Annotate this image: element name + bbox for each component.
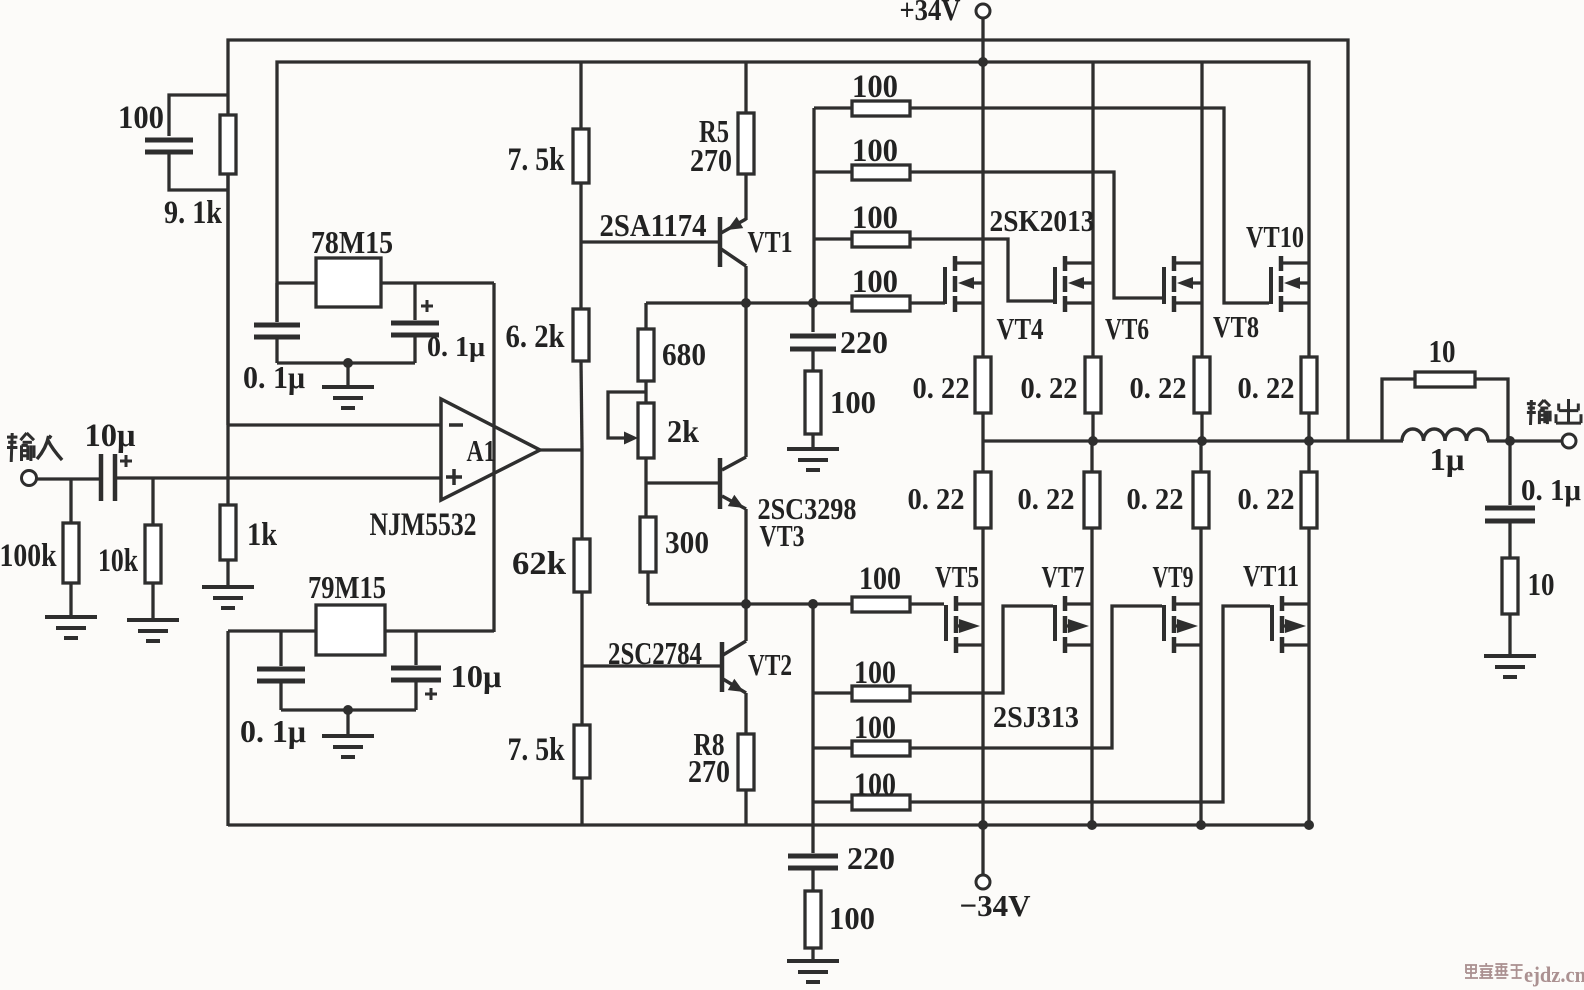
resistor 6.2k [573,309,589,361]
svg-text:0. 22: 0. 22 [1130,370,1187,405]
label 输出 (output) [1527,399,1581,425]
resistor R8 270 [738,734,754,825]
svg-text:0. 1μ: 0. 1μ [240,713,306,749]
label VT1 [748,224,793,259]
node: -34V rail junction x=983 [978,820,988,830]
svg-text:VT5: VT5 [935,559,979,594]
svg-text:ejdz.cn: ejdz.cn [1524,962,1584,987]
wire: rowB to VT7 gate [910,606,1053,693]
label 10u (79M15) [451,658,502,694]
resistor 100 (upper RC) [805,371,821,434]
label 0.22 (lower, col 1092) [1018,481,1075,516]
wire: row3 to VT6 gate [910,239,1053,301]
svg-text:0. 22: 0. 22 [908,481,965,516]
svg-text:7. 5k: 7. 5k [508,142,566,178]
wire: bias column seg3 [581,361,582,449]
resistor 100k (input) [63,478,79,583]
potentiometer 2k [608,392,654,458]
label 2SC2784 [608,635,702,671]
label 100 (row3) [852,200,898,236]
regulator 78M15 [316,258,381,307]
mosfet VT11 (2SJ313) [1272,596,1309,653]
wire: rowA to VT5 gate [910,602,944,605]
node: output rail junction x=1093 [1088,436,1098,446]
label 100 (rowA) [859,561,901,597]
label 680 [662,336,706,372]
wire: 79M15 input from -34V rail [228,631,316,826]
label +34V [900,0,962,27]
resistor 0.22 (lower, col 1309) [1301,441,1317,604]
label 1u [1430,441,1465,477]
node: +34V rail / VT4 drain [978,57,988,67]
resistor 100 (gate VT4) [852,296,910,311]
resistor 100 (gate VT7) [813,686,910,701]
svg-text:VT10: VT10 [1246,219,1304,254]
label 100 (row1) [852,69,898,105]
svg-text:VT4: VT4 [997,311,1044,346]
capacitor 100 (across 9.1k) [145,140,193,152]
mosfet VT4 (2SK2013) [943,256,983,312]
wire: VT1 base wire [581,240,718,243]
transistor VT1 (2SA1174 PNP) [720,174,746,303]
terminal input (circle) [22,471,37,486]
resistor 10k (input) [145,478,161,583]
wire: bias column to -34V rail [580,778,583,825]
label 100 (rowD) [854,767,896,803]
resistor 100 (gate VT6) [814,232,910,247]
label 0.22 (lower, col 1309) [1238,481,1295,516]
svg-text:220: 220 [847,840,895,876]
svg-text:NJM5532: NJM5532 [370,507,477,543]
label -34V [960,888,1032,923]
wire: 79M15 ground rail [281,708,416,711]
label 7.5k (lower) [508,732,566,768]
label 2SK2013 [990,203,1095,238]
mosfet VT6 (2SK2013) [1055,256,1093,312]
svg-text:VT9: VT9 [1153,559,1194,594]
svg-text:VT3: VT3 [760,518,805,553]
wire: 100 cap bypass loop [169,95,228,190]
label NJM5532 [370,507,477,543]
svg-text:2SK2013: 2SK2013 [990,203,1095,238]
svg-text:10: 10 [1429,333,1456,369]
svg-text:VT6: VT6 [1105,311,1149,346]
node: output rail junction x=1510 [1505,436,1515,446]
svg-text:680: 680 [662,336,706,372]
wire: +34V supply rail [277,62,1309,322]
wire: rowD to VT11 gate [910,606,1270,802]
label 输入 (input) [7,433,62,462]
svg-text:VT1: VT1 [748,224,793,259]
resistor 0.22 (upper, col 1309) [1301,303,1317,441]
terminal output (circle) [1562,434,1576,448]
mosfet VT9 (2SJ313) [1164,596,1201,653]
ground (output) [1484,614,1536,677]
label 0.1u (78M15 out) [427,332,485,363]
label 2SA1174 [600,207,707,243]
label A1 [467,433,496,468]
wire: bias column seg4 [580,449,583,539]
op-amp A1 (NJM5532) [441,399,540,500]
svg-text:VT8: VT8 [1213,309,1259,344]
svg-text:79M15: 79M15 [308,569,386,605]
label 100 (lower RC) [829,900,875,936]
resistor R5 270 [738,62,754,174]
mosfet VT7 (2SJ313) [1055,596,1092,653]
svg-text:100: 100 [852,133,898,169]
resistor 100 (gate VT11) [813,795,910,810]
wire: top feedback rail (output to 9.1k network) [228,40,1348,441]
node: 78M15 ground [343,358,353,368]
wire: -34V rail [228,823,1309,826]
wire: output to terminal [1510,439,1562,442]
label VT3 [760,518,805,553]
svg-text:100k: 100k [0,538,57,574]
label 1k [247,517,278,553]
svg-text:10μ: 10μ [85,418,136,454]
wire: bias column top [579,62,582,129]
terminal +34V [976,4,990,62]
resistor 0.22 (upper, col 1202) [1194,303,1210,441]
label 100 (row4) [852,264,898,300]
wire: upper RC stem [811,303,814,332]
label R8 [694,726,725,762]
resistor 10 (output zobel R) [1382,372,1508,441]
op-amp plus sign [446,469,462,485]
label 0.22 (upper, col 1309) [1238,370,1295,405]
ground (upper RC) [787,434,839,470]
resistor 100 (gate VT9) [813,741,910,756]
node: output rail junction x=1202 [1197,436,1207,446]
label 2k [667,413,699,449]
resistor 62k [574,539,590,592]
node: output rail junction x=1309 [1304,436,1314,446]
label 79M15 [308,569,386,605]
svg-text:0. 22: 0. 22 [1021,370,1078,405]
resistor 0.22 (lower, col 1092) [1084,441,1100,604]
node: lower gate bus junction [808,599,818,609]
svg-text:100: 100 [854,710,896,746]
node: -34V rail junction x=1092 [1087,820,1097,830]
label 100 (rowB) [854,655,896,691]
svg-text:62k: 62k [512,546,567,582]
wire: 78M15 output to op-amp V+ [381,283,494,632]
label VT7 [1042,559,1085,594]
wire: VT9 drain to -34V rail [1199,645,1202,825]
wire: row4 to VT4 gate [910,301,943,304]
wire: 680 top lead [644,303,647,329]
transistor VT3 (2SC3298 NPN) [720,303,746,604]
label VT4 [997,311,1044,346]
label 0.1u (output) [1521,472,1581,507]
svg-text:100: 100 [118,100,164,136]
label VT8 [1213,309,1259,344]
label 270 (R5) [690,142,732,178]
ground (78M15) [322,363,374,408]
label 100k [0,538,57,574]
capacitor 0.1u (output zobel) [1485,441,1535,558]
svg-text:VT7: VT7 [1042,559,1085,594]
svg-text:6. 2k: 6. 2k [506,319,566,355]
label VT9 [1153,559,1194,594]
svg-text:0. 22: 0. 22 [1238,370,1295,405]
svg-text:2SC2784: 2SC2784 [608,635,702,671]
mosfet VT8 (2SK2013) [1164,256,1202,312]
label 2SJ313 [993,699,1079,734]
wire: input to coupling cap [36,477,99,480]
svg-text:100: 100 [852,200,898,236]
capacitor 10u (79M15) [391,631,441,710]
label VT10 [1246,219,1304,254]
wire: VT7 drain to -34V rail [1090,645,1093,825]
wire: rowC to VT9 gate [910,606,1162,748]
capacitor 220 (upper) [790,336,836,371]
wire: VT11 drain to -34V rail [1307,645,1310,825]
label VT6 [1105,311,1149,346]
wire: 680-2k link [644,381,647,403]
svg-text:100: 100 [854,655,896,691]
label 10 (shunt) [1528,566,1555,602]
wire: op-amp output [540,448,582,451]
svg-text:0. 22: 0. 22 [1127,481,1184,516]
wire: VT4 drain column [981,62,984,263]
svg-text:VT2: VT2 [748,647,792,682]
node: upper gate bus junction [808,298,818,308]
ground (10k) [127,583,179,641]
svg-text:100: 100 [830,384,876,420]
transistor VT2 (2SC2784 NPN) [722,604,746,734]
svg-text:100: 100 [852,264,898,300]
wire: VT6 drain column [1091,62,1094,263]
svg-text:0. 1μ: 0. 1μ [1521,472,1581,507]
svg-text:1μ: 1μ [1430,441,1465,477]
label 0.22 (upper, col 983) [913,370,970,405]
resistor 100 (gate VT10) [814,101,910,116]
op-amp minus sign [449,423,463,427]
wire: 300 bottom lead [646,572,649,604]
svg-text:7. 5k: 7. 5k [508,732,566,768]
wire: upper drive node [646,301,852,304]
svg-text:270: 270 [690,142,732,178]
wire: lower RC stem [811,802,814,853]
label 100 (cap) [118,100,164,136]
mosfet VT5 (2SJ313) [946,596,983,653]
svg-text:10μ: 10μ [451,658,502,694]
label 0.22 (lower, col 1201) [1127,481,1184,516]
wire: row1 to VT10 gate [910,108,1269,303]
svg-text:300: 300 [665,524,709,560]
capacitor 0.1u (78M15 out) [391,283,439,363]
node: -34V rail junction x=1309 [1304,820,1314,830]
svg-text:100: 100 [829,900,875,936]
ground (100k) [45,583,97,638]
wire: bias column seg2 [579,183,582,309]
wire: VT2 base wire [582,664,720,667]
svg-text:270: 270 [688,753,730,789]
label 270 (R8) [688,753,730,789]
wire: 78M15 input [277,281,316,284]
label 0.1u (78M15 in) [243,359,305,395]
svg-text:0. 1μ: 0. 1μ [427,332,485,363]
resistor 0.22 (upper, col 983) [975,303,991,441]
capacitor 0.1u (78M15 in) [254,283,300,363]
label 0.22 (lower, col 983) [908,481,965,516]
wire: output rail [983,439,1512,442]
svg-text:2k: 2k [667,413,699,449]
terminal -34V [976,875,990,889]
svg-text:2SJ313: 2SJ313 [993,699,1079,734]
regulator 79M15 [316,605,385,655]
ground (1k) [202,560,254,608]
label 10 (zobel R) [1429,333,1456,369]
capacitor 10u input coupling [101,454,132,501]
resistor 100 (gate VT5) [852,597,910,612]
label 100 (rowC) [854,710,896,746]
label 100 (upper RC) [830,384,876,420]
node: VT1 collector junction [741,298,751,308]
label 2SC3298 [758,491,857,526]
wire: VT5 drain to -34V terminal [981,825,984,875]
svg-text:−34V: −34V [960,888,1032,923]
svg-text:100: 100 [852,69,898,105]
label 100 (row2) [852,133,898,169]
resistor 300 [640,517,656,572]
svg-text:2SA1174: 2SA1174 [600,207,707,243]
label 7.5k (upper) [508,142,566,178]
svg-text:+34V: +34V [900,0,962,27]
label VT11 [1243,558,1299,593]
label 220 (upper) [840,324,888,360]
wire: VT8 drain column [1200,62,1203,263]
label VT2 [748,647,792,682]
svg-text:0. 22: 0. 22 [913,370,970,405]
ground (lower RC) [787,948,839,982]
svg-text:78M15: 78M15 [311,224,393,260]
resistor 7.5k (upper) [573,129,589,183]
label 220 (lower) [847,840,895,876]
wire: inverting input from 9.1k [228,174,441,425]
wire: lower gate bus [811,604,814,802]
resistor 10 (output shunt) [1502,558,1518,614]
svg-text:100: 100 [859,561,901,597]
svg-text:10: 10 [1528,566,1555,602]
label 0.1u (79M15) [240,713,306,749]
label 10u [85,418,136,454]
label R5 [699,113,729,149]
svg-text:10k: 10k [98,543,138,579]
label VT5 [935,559,979,594]
label 0.22 (upper, col 1093) [1021,370,1078,405]
inductor 1u (output) [1402,429,1488,441]
label 10k [98,543,138,579]
svg-text:0. 22: 0. 22 [1238,481,1295,516]
resistor 100 (lower RC) [805,891,821,948]
wire: bias column seg5 [580,592,583,725]
label 62k [512,546,567,582]
svg-text:0. 22: 0. 22 [1018,481,1075,516]
capacitor 220 (lower) [788,856,838,891]
wire: row2 to VT8 gate [910,172,1162,298]
watermark 易家电子ejdz.cn [1465,962,1584,987]
resistor 1k (feedback shunt) [220,425,236,560]
wire: lower drive node [648,602,852,605]
resistor 0.22 (lower, col 983) [975,441,991,604]
wire: 2k-300 link / VT3 base tap [646,458,718,517]
resistor 0.22 (lower, col 1201) [1193,441,1209,604]
svg-text:1k: 1k [247,517,278,553]
resistor 680 [638,329,654,381]
wire: upper gate bus [812,108,815,303]
resistor 9.1k (feedback) [220,115,236,174]
resistor 100 (gate VT8) [814,165,910,180]
svg-text:A1: A1 [467,433,496,468]
wire: VT5 drain to -34V rail [981,645,984,825]
mosfet VT10 (2SK2013) [1271,256,1309,312]
ground (79M15) [322,710,374,757]
label 6.2k [506,319,566,355]
wire: 79M15 output to op-amp V- [385,629,494,632]
resistor 0.22 (upper, col 1093) [1085,303,1101,441]
capacitor 0.1u (79M15) [257,631,305,710]
svg-text:9. 1k: 9. 1k [164,195,223,231]
svg-text:220: 220 [840,324,888,360]
svg-text:100: 100 [854,767,896,803]
node: VT3 emitter junction [741,599,751,609]
node: -34V rail junction x=1201 [1196,820,1206,830]
resistor 7.5k (lower) [574,725,590,778]
label 78M15 [311,224,393,260]
node: 79M15 ground [343,705,353,715]
label 9.1k [164,195,223,231]
label 0.22 (upper, col 1202) [1130,370,1187,405]
wire: 78M15 ground rail [277,361,415,364]
wire: noninverting input line [117,476,441,479]
svg-text:VT11: VT11 [1243,558,1299,593]
label 300 [665,524,709,560]
